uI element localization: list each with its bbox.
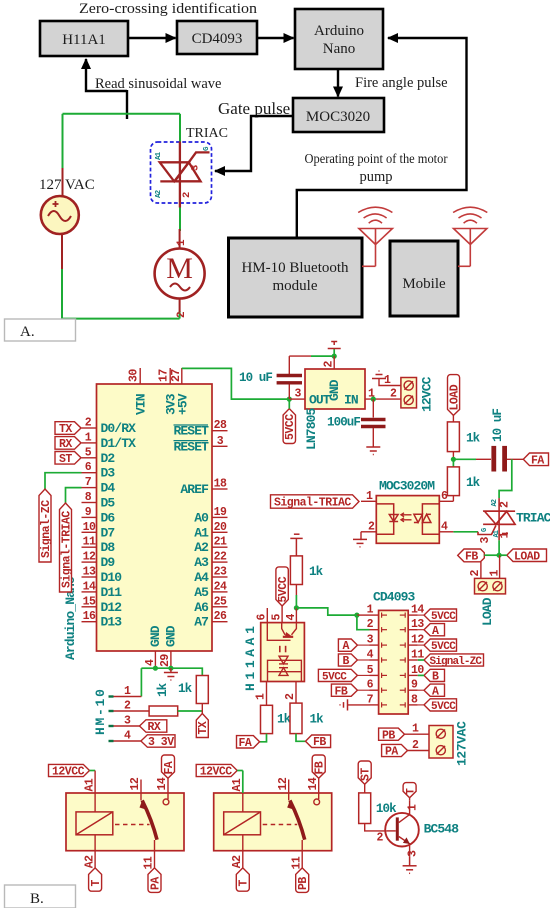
resistor 1k horizontal (HM-10 pin2) — [149, 682, 178, 716]
svg-text:1k: 1k — [309, 565, 324, 579]
pin 6 — [266, 608, 268, 623]
svg-text:3: 3 — [190, 165, 202, 171]
svg-text:CD4093: CD4093 — [192, 31, 243, 47]
svg-text:3: 3 — [406, 850, 419, 857]
svg-text:9: 9 — [411, 679, 418, 692]
svg-text:2: 2 — [499, 501, 512, 508]
svg-text:3: 3 — [295, 388, 302, 401]
pin 30 VIN — [128, 368, 149, 415]
svg-text:FA: FA — [239, 737, 252, 750]
flag RX — [55, 437, 81, 451]
flag RX (HM-10 pin3) — [140, 720, 167, 734]
svg-text:GND: GND — [148, 625, 163, 647]
flag FB (pin6) — [331, 684, 369, 698]
svg-text:1k: 1k — [310, 713, 325, 727]
TRIAC T1 — [478, 498, 515, 540]
wires to 127VAC terminal — [405, 733, 430, 735]
svg-text:4: 4 — [124, 730, 131, 743]
wire +5V pin27 to OUT node — [182, 368, 289, 399]
svg-text:1k: 1k — [466, 476, 481, 490]
junction node OUT — [287, 397, 292, 402]
flag 12VCC — [196, 764, 237, 776]
svg-text:10: 10 — [83, 521, 96, 534]
svg-text:127VAC: 127VAC — [455, 721, 470, 766]
dashed link — [115, 824, 150, 826]
svg-text:RX: RX — [148, 721, 161, 734]
capacitor 100uF — [327, 399, 386, 447]
flag B (pin4) — [338, 654, 369, 668]
internal LED — [376, 504, 398, 534]
RESET overlines — [174, 424, 209, 426]
svg-text:FB: FB — [465, 551, 478, 564]
svg-text:A1: A1 — [194, 525, 209, 540]
svg-text:1: 1 — [384, 374, 391, 387]
svg-text:A6: A6 — [194, 600, 209, 615]
svg-text:5VCC: 5VCC — [431, 641, 456, 653]
wire FA node to cap — [453, 458, 476, 460]
svg-text:9: 9 — [85, 506, 92, 519]
svg-text:D10: D10 — [101, 570, 123, 585]
svg-text:+5V: +5V — [176, 393, 191, 415]
svg-text:A1: A1 — [83, 778, 96, 791]
svg-text:Signal-TRIAC: Signal-TRIAC — [60, 511, 73, 588]
svg-text:13: 13 — [83, 566, 96, 579]
svg-text:2: 2 — [176, 312, 188, 318]
GND net wires under arduino — [141, 668, 202, 696]
right pin numbers — [411, 604, 424, 707]
svg-text:D5: D5 — [101, 496, 116, 511]
svg-text:5VCC: 5VCC — [431, 611, 456, 623]
supply symbol above 1k (H11AA1 pull-up) — [290, 534, 302, 556]
svg-text:D6: D6 — [101, 510, 116, 525]
pin A1 — [94, 771, 96, 813]
svg-text:D13: D13 — [101, 615, 123, 630]
pin 12 — [288, 780, 290, 801]
wire gate pulse MOC3020 to TRIAC — [215, 116, 293, 171]
svg-text:12VCC: 12VCC — [420, 376, 435, 412]
pin 1 — [361, 500, 376, 502]
flag FB (to load node) — [458, 549, 499, 564]
wire left bottom up to source — [61, 268, 63, 319]
capacitor 10uF (vertical) — [239, 356, 302, 399]
arrow H11A1 to CD4093 — [129, 37, 176, 39]
svg-text:A4: A4 — [194, 570, 209, 585]
svg-text:11: 11 — [83, 536, 96, 549]
wire right down to TRIAC — [179, 114, 181, 144]
svg-text:PB: PB — [382, 729, 395, 742]
svg-text:A3: A3 — [194, 555, 209, 570]
svg-text:BC548: BC548 — [424, 822, 460, 837]
svg-text:A: A — [343, 640, 350, 653]
svg-text:3: 3 — [124, 715, 131, 728]
TRIAC symbol part A — [160, 142, 210, 208]
svg-text:2: 2 — [124, 700, 131, 713]
svg-text:ST: ST — [59, 453, 72, 466]
resistor 1k (FB) — [290, 703, 324, 734]
svg-text:B: B — [343, 655, 350, 668]
svg-text:TX: TX — [59, 423, 72, 436]
svg-text:2: 2 — [85, 417, 92, 430]
svg-text:24: 24 — [214, 580, 227, 593]
svg-text:A1: A1 — [493, 530, 501, 537]
svg-text:11: 11 — [143, 856, 156, 869]
svg-text:CD4093: CD4093 — [373, 590, 416, 605]
svg-text:B: B — [432, 671, 439, 684]
svg-text:LOAD: LOAD — [480, 597, 495, 626]
svg-text:5VCC: 5VCC — [277, 576, 290, 602]
flag LOAD (right of node) — [499, 549, 546, 563]
wire top AC — [63, 113, 181, 115]
terminal block LOAD — [475, 578, 506, 626]
flag ST — [55, 452, 81, 467]
svg-text:10 uF: 10 uF — [491, 409, 505, 442]
svg-text:TRIAC: TRIAC — [186, 126, 228, 141]
wire MOC pin2 to gnd — [360, 532, 361, 540]
svg-text:12VCC: 12VCC — [52, 766, 85, 779]
svg-text:25: 25 — [214, 595, 227, 608]
resistor 10k — [359, 793, 371, 824]
svg-text:Signal-ZC: Signal-ZC — [40, 500, 53, 558]
flag A (pin9) — [418, 684, 445, 698]
flag PA — [148, 868, 161, 893]
svg-text:A5: A5 — [194, 585, 209, 600]
svg-text:LOAD: LOAD — [448, 384, 461, 410]
wire to base — [365, 824, 387, 831]
IC CD4093 — [367, 590, 425, 715]
svg-text:A2: A2 — [194, 540, 209, 555]
svg-text:4: 4 — [285, 614, 298, 621]
svg-text:Read sinusoidal wave: Read sinusoidal wave — [95, 76, 221, 92]
svg-text:1k: 1k — [178, 682, 193, 696]
wire pin2 resistor to TX node — [178, 710, 203, 712]
svg-text:A2: A2 — [83, 855, 96, 868]
svg-text:D2: D2 — [101, 451, 116, 466]
wire D3 to Signal-ZC — [45, 473, 82, 489]
flag PA — [382, 744, 408, 758]
svg-text:10 uF: 10 uF — [239, 371, 272, 385]
pin 14 + flag FA — [162, 755, 175, 778]
coil — [76, 812, 113, 835]
flag T — [236, 868, 249, 891]
terminal block 12VCC — [401, 376, 435, 412]
resistor 1k (upper right) — [447, 422, 480, 452]
AC source 127 VAC — [39, 168, 95, 269]
flag PB — [379, 728, 405, 742]
svg-text:14: 14 — [307, 777, 320, 790]
label A. — [5, 319, 76, 341]
wire resistor to TX flag — [201, 704, 203, 714]
svg-text:12: 12 — [83, 551, 96, 564]
svg-text:LN7805: LN7805 — [304, 407, 319, 450]
pin 11 — [154, 840, 156, 868]
svg-text:A: A — [432, 685, 439, 698]
svg-text:RESET: RESET — [173, 424, 209, 439]
resistor 1k vertical (TX pullup) — [178, 676, 208, 704]
svg-text:D8: D8 — [101, 540, 116, 555]
block HM-10 Bluetooth module — [229, 238, 363, 317]
svg-text:100uF: 100uF — [327, 416, 360, 430]
wire cap top to GND pin2 node — [289, 355, 311, 357]
wire D4 to Signal-TRIAC — [66, 488, 82, 503]
IC MOC3020M — [361, 479, 453, 544]
svg-text:5: 5 — [271, 614, 284, 621]
wire bottom AC — [62, 318, 180, 320]
svg-text:PA: PA — [149, 877, 162, 890]
resistor 1k (H11AA1 pin4 pullup) — [290, 556, 323, 585]
flag Signal-TRIAC — [60, 503, 74, 592]
svg-text:12VCC: 12VCC — [200, 766, 233, 779]
svg-text:3 3V: 3 3V — [148, 736, 174, 749]
svg-text:21: 21 — [214, 536, 227, 549]
wire to FA flag — [260, 734, 267, 742]
svg-text:D1/TX: D1/TX — [101, 436, 137, 451]
svg-text:LOAD: LOAD — [514, 550, 540, 563]
block CD4093 — [177, 21, 257, 54]
coil — [224, 812, 261, 835]
svg-text:5VCC: 5VCC — [322, 671, 347, 683]
pin 1 — [266, 682, 268, 706]
flag 12VCC — [49, 764, 90, 776]
flag 3 3V (HM-10 pin4) — [141, 735, 175, 749]
svg-text:16: 16 — [83, 610, 96, 623]
svg-text:1: 1 — [254, 693, 267, 700]
ground — [403, 857, 417, 874]
flag T (collector) — [403, 783, 416, 798]
ground symbol under arduino — [164, 668, 178, 680]
svg-text:8: 8 — [411, 693, 418, 706]
svg-text:127 VAC: 127 VAC — [39, 177, 95, 193]
svg-text:1: 1 — [412, 723, 419, 736]
svg-text:FA: FA — [531, 454, 544, 467]
svg-text:T: T — [238, 880, 251, 887]
wire motor to bottom — [179, 311, 181, 319]
svg-text:Operating point of the motor: Operating point of the motor — [305, 152, 448, 167]
wire — [364, 784, 366, 793]
contact circle — [314, 799, 320, 805]
svg-text:17: 17 — [158, 369, 171, 382]
relay body — [214, 793, 332, 851]
opto H11AA1 — [243, 606, 304, 705]
svg-text:module: module — [273, 278, 318, 294]
terminal pin1 to gnd bar — [372, 371, 401, 387]
svg-text:2: 2 — [390, 388, 397, 401]
svg-text:1: 1 — [366, 490, 373, 503]
pin 27 +5V — [170, 368, 191, 415]
internal arrows — [401, 513, 412, 522]
svg-text:D7: D7 — [101, 525, 115, 540]
antenna of Mobile — [453, 207, 487, 266]
regulator LN7805 — [295, 356, 376, 450]
svg-text:A0: A0 — [194, 510, 209, 525]
flag 5VCC (pin12) — [418, 639, 457, 653]
wire TRIAC to motor — [179, 202, 181, 231]
svg-text:B.: B. — [30, 891, 44, 907]
wire feedback loop HM-10 to Arduino — [297, 38, 467, 238]
svg-text:7: 7 — [85, 476, 92, 489]
flag FA (right) — [523, 453, 548, 467]
svg-text:1: 1 — [176, 239, 188, 246]
switch arm — [142, 800, 157, 839]
supply symbol above 7805 — [328, 342, 341, 349]
svg-text:12: 12 — [277, 777, 290, 790]
capacitor 10 uF (horizontal) — [491, 409, 505, 472]
left pin stubs — [370, 615, 379, 705]
wire MOC pin4 to TRIAC gate — [453, 531, 478, 533]
transistor BC548 — [385, 813, 419, 847]
flag TX vertical — [196, 714, 210, 738]
svg-text:ST: ST — [360, 768, 373, 781]
pin 11 — [301, 840, 303, 868]
bottom pins GND GND — [144, 625, 179, 668]
pin 14 + flag FB — [312, 755, 325, 778]
svg-text:FB: FB — [314, 761, 327, 774]
svg-text:20: 20 — [214, 521, 227, 534]
TRIAC dashed box — [151, 142, 212, 203]
pin 2 — [361, 531, 376, 533]
svg-text:5VCC: 5VCC — [284, 414, 297, 440]
flag B (pin10) — [418, 669, 445, 683]
svg-text:4: 4 — [144, 659, 157, 666]
wire to FA node — [452, 452, 454, 460]
svg-text:11: 11 — [290, 856, 303, 869]
svg-text:5: 5 — [85, 446, 92, 459]
svg-text:29: 29 — [159, 654, 172, 667]
svg-text:Arduino: Arduino — [314, 23, 364, 39]
svg-text:FB: FB — [335, 685, 348, 698]
flag ST + resistor 10k + transistor BC548 — [358, 761, 459, 873]
svg-text:MOC3020: MOC3020 — [306, 109, 370, 125]
wire IN pin to terminal — [365, 398, 401, 400]
flag 5VCC under OUT — [283, 409, 297, 444]
svg-text:OUT: OUT — [309, 393, 331, 408]
wire pin4 node to CD4093 pins 1,2 — [296, 608, 357, 615]
pin A2 — [94, 835, 96, 868]
svg-text:1: 1 — [124, 685, 131, 698]
svg-text:8: 8 — [85, 491, 92, 504]
svg-text:T: T — [406, 788, 418, 795]
relay body — [66, 793, 184, 851]
right pin stubs — [408, 615, 418, 705]
svg-text:14: 14 — [156, 777, 169, 790]
svg-text:1k: 1k — [466, 432, 481, 446]
flag 5VCC (pin5) — [318, 669, 369, 683]
left pin numbers — [367, 604, 374, 707]
motor M — [155, 229, 205, 318]
block MOC3020 — [293, 98, 384, 132]
arrow Arduino Nano to MOC3020 — [337, 70, 339, 97]
flag Signal-ZC — [39, 489, 53, 562]
flag TX — [55, 422, 81, 436]
svg-text:15: 15 — [83, 595, 96, 608]
svg-text:VIN: VIN — [134, 394, 149, 415]
terminal block 127VAC — [429, 721, 470, 766]
pin 4 — [295, 608, 297, 623]
pin 4 — [439, 531, 453, 533]
pin 6 — [439, 500, 453, 502]
internal triac — [414, 504, 439, 534]
svg-text:2: 2 — [412, 739, 419, 752]
svg-text:GND: GND — [164, 625, 179, 647]
block H11A1 — [40, 21, 128, 56]
pin A2 — [242, 835, 244, 868]
flag A (pin3) — [338, 639, 369, 653]
svg-text:D3: D3 — [101, 466, 116, 481]
svg-text:28: 28 — [214, 419, 227, 432]
arrow CD4093 to Arduino Nano — [258, 37, 294, 39]
svg-text:2: 2 — [323, 361, 336, 368]
flag ST — [358, 761, 371, 784]
relay K2 — [196, 755, 332, 892]
pin 2 — [295, 682, 297, 704]
svg-text:pump: pump — [359, 169, 392, 185]
svg-text:Fire angle pulse: Fire angle pulse — [355, 75, 448, 91]
wire stub down to AC line — [126, 90, 128, 119]
pin A1 — [242, 771, 244, 794]
antenna of HM-10 — [358, 207, 392, 266]
wire cap to FA flag and TRIAC — [507, 458, 523, 460]
svg-text:RESET: RESET — [173, 439, 209, 454]
wires down to LOAD terminal — [480, 562, 482, 579]
connector HM-10 — [93, 685, 149, 743]
label B. — [5, 885, 76, 908]
svg-text:A.: A. — [20, 324, 35, 340]
switch arm — [290, 800, 305, 839]
svg-text:27: 27 — [170, 369, 183, 382]
svg-text:M: M — [166, 252, 193, 285]
svg-text:FA: FA — [163, 761, 176, 774]
wire read-sinusoidal into H11A1 — [86, 59, 127, 91]
svg-text:Mobile: Mobile — [402, 276, 446, 292]
block Arduino Nano — [295, 9, 383, 69]
flag Signal-TRIAC to MOC pin1 — [271, 495, 360, 510]
svg-text:FB: FB — [313, 736, 326, 749]
svg-text:A7: A7 — [194, 615, 208, 630]
svg-text:6: 6 — [256, 614, 269, 621]
gnd wire (pin7) — [340, 699, 370, 710]
svg-text:Zero-crossing identification: Zero-crossing identification — [79, 1, 258, 17]
wire LOAD flag to 1k — [452, 415, 454, 422]
flag FA (bottom left) — [237, 736, 260, 750]
svg-text:5VCC: 5VCC — [431, 701, 456, 713]
ground under 100uF — [366, 447, 380, 455]
svg-text:RX: RX — [59, 438, 72, 451]
svg-text:D0/RX: D0/RX — [101, 421, 137, 436]
internal arrows — [280, 646, 286, 653]
svg-text:PA: PA — [385, 746, 398, 759]
flag A (pin13) — [418, 624, 445, 638]
IC U1 Arduino_Nano — [63, 384, 212, 660]
svg-text:H11A1: H11A1 — [62, 32, 106, 48]
right pins stubs — [212, 431, 228, 622]
svg-text:IN: IN — [344, 393, 358, 408]
svg-text:30: 30 — [128, 369, 141, 382]
internal phototransistor — [267, 623, 296, 641]
block Mobile — [390, 241, 458, 316]
svg-text:TX: TX — [197, 721, 210, 734]
svg-text:3: 3 — [479, 537, 492, 544]
svg-text:Signal-TRIAC: Signal-TRIAC — [274, 497, 351, 510]
flag 5VCC above H11AA1 pin5 — [276, 567, 290, 606]
svg-text:2: 2 — [469, 570, 482, 577]
svg-text:A1: A1 — [231, 778, 244, 791]
svg-text:3: 3 — [217, 435, 224, 448]
flag LOAD (top right, vertical) — [448, 375, 462, 416]
svg-text:A: A — [432, 625, 439, 638]
svg-text:1: 1 — [488, 570, 501, 577]
dashed link — [263, 824, 298, 826]
svg-text:19: 19 — [214, 506, 227, 519]
svg-text:22: 22 — [214, 551, 227, 564]
